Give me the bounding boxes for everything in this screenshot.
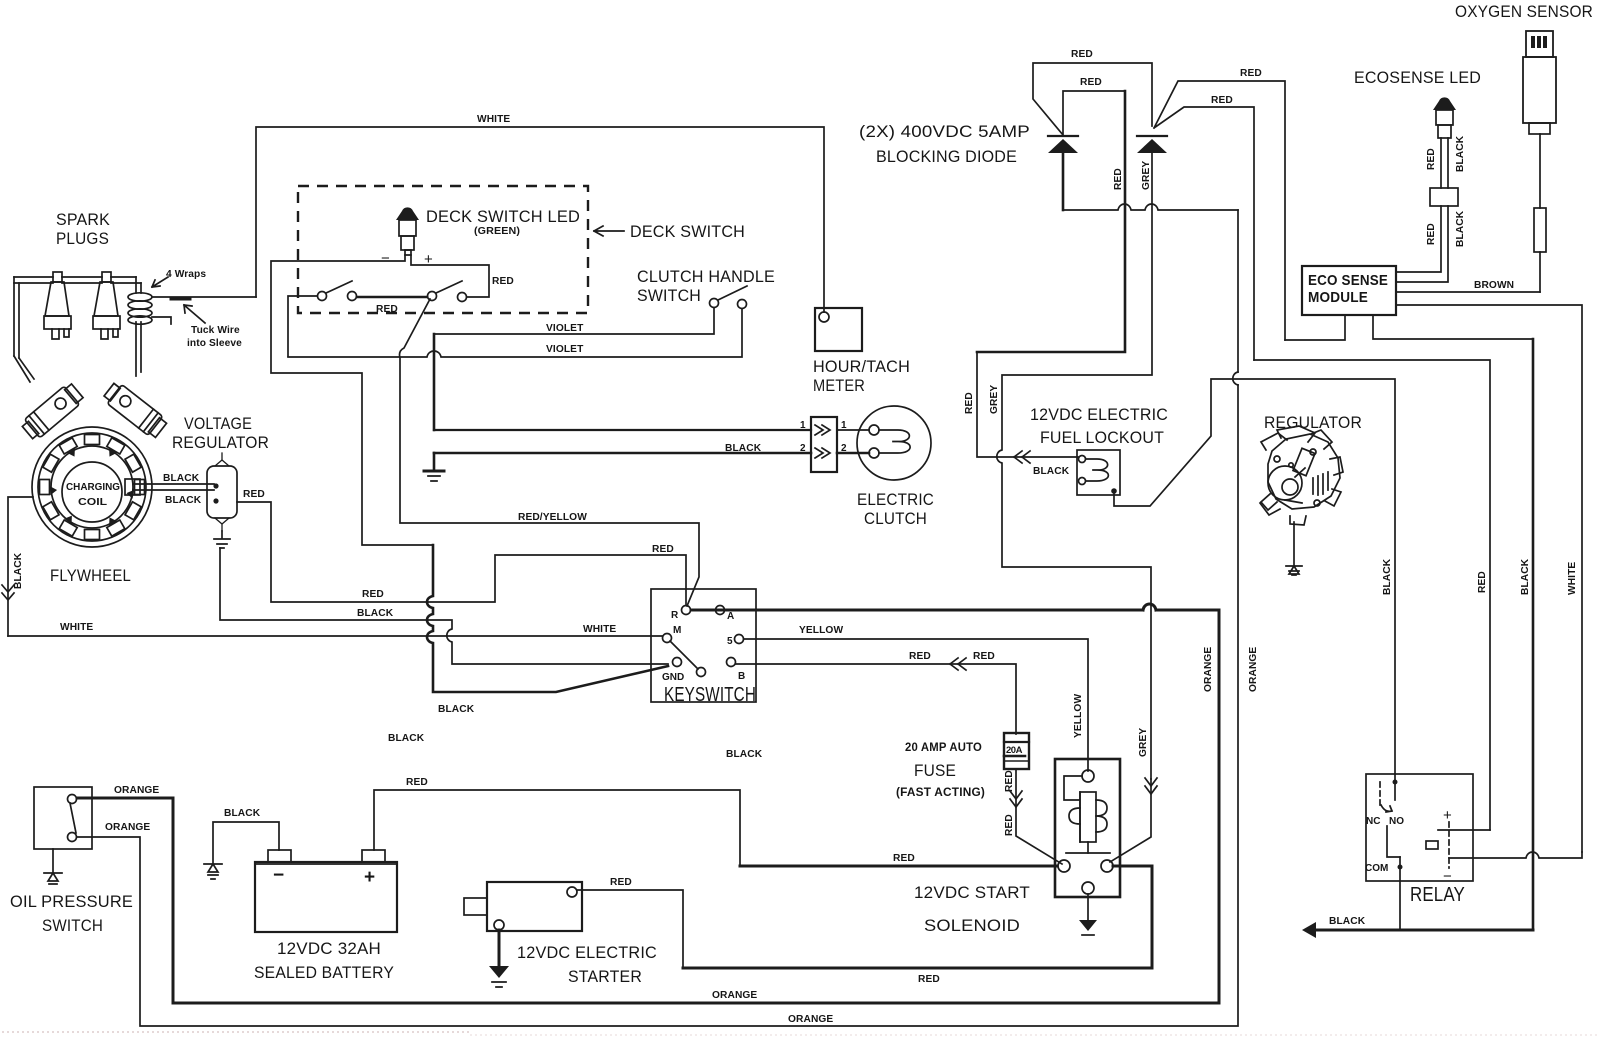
svg-text:NO: NO — [1389, 816, 1404, 827]
wire black to clutch pin2 (ground side) — [434, 452, 811, 455]
wire relay minus to white riser — [1449, 852, 1582, 858]
svg-text:RED: RED — [1071, 49, 1093, 60]
svg-text:BLACK: BLACK — [13, 552, 24, 589]
wire solenoid ground — [1087, 894, 1089, 920]
eco sense module — [1302, 266, 1396, 315]
svg-text:RED: RED — [973, 651, 995, 662]
svg-text:YELLOW: YELLOW — [799, 625, 843, 636]
svg-text:20 AMP AUTO: 20 AMP AUTO — [905, 742, 982, 754]
ignition coil left — [20, 382, 85, 442]
wire D1 bottom to orange drop with hops — [1063, 204, 1238, 210]
relay box — [1366, 774, 1473, 881]
relay coil element — [1426, 841, 1438, 849]
svg-text:RED: RED — [1004, 814, 1015, 836]
keyswitch terminal B — [727, 658, 736, 667]
deck switch contact K1 — [318, 292, 327, 301]
svg-text:+: + — [1443, 807, 1452, 824]
svg-text:YELLOW: YELLOW — [1073, 694, 1084, 738]
keyswitch terminal M — [663, 634, 672, 643]
svg-text:+: + — [364, 867, 375, 888]
svg-text:ECO SENSE: ECO SENSE — [1308, 272, 1388, 289]
deck switch bar (red) — [357, 296, 427, 299]
relay NO contact with feed — [1394, 774, 1396, 800]
ground below regulator VR1 — [214, 531, 230, 548]
wire regulator case ground to keyswitch GND (black) — [220, 548, 668, 664]
weave vertical (led negative / black) — [427, 545, 668, 692]
svg-text:(2X) 400VDC 5AMP: (2X) 400VDC 5AMP — [859, 122, 1030, 141]
svg-text:FUSE: FUSE — [914, 761, 956, 780]
svg-text:12VDC ELECTRIC: 12VDC ELECTRIC — [1030, 405, 1168, 424]
coil 4 wraps — [128, 293, 152, 324]
ecosense LED lamp — [1433, 97, 1456, 138]
wire deck switch common lever down — [400, 299, 700, 606]
svg-text:−: − — [1443, 868, 1452, 885]
wire spark plug harness (double lead) — [14, 277, 141, 382]
spark plug P1 — [44, 272, 71, 339]
svg-text:M: M — [673, 625, 681, 636]
svg-text:BLACK: BLACK — [726, 749, 763, 760]
svg-text:12VDC 32AH: 12VDC 32AH — [277, 939, 381, 958]
deck switch lever 1 — [326, 281, 352, 293]
wire violet 1 (clutch switch A to electric clutch) — [434, 308, 714, 334]
wire keyswitch 5 yellow — [744, 639, 1088, 771]
svg-text:BLACK: BLACK — [1455, 135, 1466, 172]
svg-text:RED: RED — [652, 544, 674, 555]
svg-text:REGULATOR: REGULATOR — [172, 433, 269, 452]
regulator alternator drawing — [1260, 426, 1343, 525]
svg-text:SWITCH: SWITCH — [637, 286, 701, 305]
svg-text:DECK SWITCH: DECK SWITCH — [630, 222, 745, 241]
blocking diode D1 — [1048, 135, 1078, 137]
ignition coil right — [102, 380, 169, 440]
flywheel trigger wedges — [50, 448, 134, 525]
wire module white out — [1396, 305, 1582, 852]
svg-text:RED: RED — [610, 877, 632, 888]
wire orange 2 (ops bottom to diode rail) — [77, 210, 1238, 1026]
svg-text:RED: RED — [1426, 148, 1437, 170]
svg-text:(GREEN): (GREEN) — [474, 226, 520, 237]
svg-text:ORANGE: ORANGE — [105, 822, 150, 833]
keyswitch center contact — [697, 668, 706, 677]
svg-text:MODULE: MODULE — [1308, 289, 1368, 306]
wire D2 slants to red feeds — [1154, 81, 1285, 360]
svg-text:COM: COM — [1365, 863, 1388, 874]
oxygen sensor inline connector — [1534, 208, 1546, 252]
solenoid left terminal — [1058, 860, 1070, 872]
wire starter ground — [498, 930, 501, 966]
svg-text:RED: RED — [492, 276, 514, 287]
svg-text:METER: METER — [813, 376, 865, 395]
svg-text:HOUR/TACH: HOUR/TACH — [813, 357, 910, 376]
solenoid right terminal — [1101, 860, 1113, 872]
deck switch contact K2 — [348, 292, 357, 301]
svg-text:5: 5 — [727, 636, 733, 647]
arrow chevrons on B wire — [950, 658, 966, 670]
arrow chevrons down on left lead — [2, 585, 14, 600]
wire regulator red output to weave — [237, 502, 686, 604]
svg-text:BLACK: BLACK — [1455, 210, 1466, 247]
svg-text:CHARGING: CHARGING — [66, 482, 120, 493]
svg-text:RED/YELLOW: RED/YELLOW — [518, 512, 587, 523]
clutch handle switch lever — [718, 286, 747, 300]
svg-text:R: R — [671, 610, 679, 621]
electric clutch connector — [811, 417, 837, 472]
solenoid coil — [1064, 776, 1082, 842]
wire battery positive red to solenoid — [374, 790, 740, 864]
wire lockout to relay black riser — [1114, 379, 1395, 774]
svg-text:12VDC ELECTRIC: 12VDC ELECTRIC — [517, 943, 657, 962]
svg-text:−: − — [273, 865, 284, 886]
svg-text:RED: RED — [893, 853, 915, 864]
deck switch LED (green) — [396, 207, 419, 255]
svg-text:RED: RED — [406, 777, 428, 788]
svg-text:CLUTCH HANDLE: CLUTCH HANDLE — [637, 267, 775, 286]
deck switch contact K4 — [458, 293, 467, 302]
wire red lockout feed — [977, 352, 1078, 457]
svg-text:SEALED BATTERY: SEALED BATTERY — [254, 963, 394, 982]
arrow chevrons on lockout feed — [1014, 451, 1030, 463]
clutch handle switch contact B — [738, 300, 747, 309]
wire keyswitch R run (thick to orange drop) — [691, 609, 1219, 612]
svg-text:RED: RED — [243, 489, 265, 500]
svg-text:BLACK: BLACK — [357, 608, 394, 619]
wire grey into solenoid right — [1110, 779, 1151, 862]
deck switch lever 2 — [436, 281, 462, 293]
svg-text:1: 1 — [800, 420, 806, 431]
svg-text:ORANGE: ORANGE — [1203, 647, 1214, 692]
svg-text:RED: RED — [1113, 168, 1124, 190]
svg-text:RELAY: RELAY — [1410, 884, 1465, 906]
wire contact K1 to violet run — [288, 296, 317, 356]
arrow chevrons down on fuse wire — [1010, 791, 1022, 807]
svg-text:BROWN: BROWN — [1474, 280, 1514, 291]
ground solenoid — [1079, 920, 1097, 931]
wire oxygen sensor lead — [1539, 134, 1541, 292]
svg-text:NC: NC — [1366, 816, 1380, 827]
relay switch arc — [1381, 805, 1392, 812]
battery 12VDC 32AH — [255, 862, 397, 932]
ground starter — [489, 966, 509, 978]
svg-text:ORANGE: ORANGE — [712, 990, 757, 1001]
svg-text:(FAST ACTING): (FAST ACTING) — [896, 787, 985, 799]
svg-text:FUEL LOCKOUT: FUEL LOCKOUT — [1040, 428, 1164, 447]
keyswitch terminal GND — [673, 658, 682, 667]
svg-text:WHITE: WHITE — [583, 624, 616, 635]
svg-text:RED: RED — [1004, 770, 1015, 792]
svg-text:COIL: COIL — [78, 497, 107, 508]
svg-text:RED: RED — [964, 392, 975, 414]
svg-text:BLOCKING DIODE: BLOCKING DIODE — [876, 147, 1017, 166]
wire white top run — [256, 127, 824, 312]
svg-text:RED: RED — [1080, 77, 1102, 88]
svg-text:CLUTCH: CLUTCH — [864, 509, 927, 528]
svg-text:OIL PRESSURE: OIL PRESSURE — [10, 892, 133, 911]
svg-text:WHITE: WHITE — [477, 114, 510, 125]
wire keyswitch B red to fuse — [736, 664, 1016, 734]
wire violet 2 (clutch switch B to deck switch) — [288, 309, 742, 357]
start solenoid box — [1055, 759, 1120, 897]
svg-text:B: B — [738, 671, 745, 682]
svg-text:BLACK: BLACK — [388, 733, 425, 744]
wire LED positive lead — [411, 255, 489, 297]
fuse F1 — [1004, 733, 1029, 769]
wire module pin black down — [1373, 315, 1533, 339]
wire coil to white vertical (tuck sleeve) — [152, 296, 256, 298]
spark plug P2 — [93, 272, 120, 339]
wire fuse to solenoid left — [1016, 770, 1062, 864]
flywheel charging coil core — [62, 462, 122, 522]
solenoid bottom terminal — [1082, 882, 1094, 894]
blocking diode D2 — [1137, 135, 1167, 137]
svg-text:ORANGE: ORANGE — [1248, 647, 1259, 692]
svg-text:RED: RED — [1240, 68, 1262, 79]
keyswitch box — [651, 589, 756, 702]
svg-text:ELECTRIC: ELECTRIC — [857, 490, 934, 509]
keyswitch terminal 5 — [735, 635, 744, 644]
wire ecosense LED leads — [1441, 138, 1448, 188]
wire relay NO to COM node — [1387, 826, 1400, 857]
scanner artifact dotted baseline — [2, 1031, 470, 1033]
svg-text:BLACK: BLACK — [725, 443, 762, 454]
svg-text:VOLTAGE: VOLTAGE — [184, 414, 252, 433]
svg-text:SOLENOID: SOLENOID — [924, 916, 1020, 935]
flywheel output window — [125, 479, 140, 495]
wire module pin to diode feed — [1285, 315, 1345, 340]
svg-text:GREY: GREY — [1138, 728, 1149, 757]
svg-text:BLACK: BLACK — [165, 495, 202, 506]
wire starter red to solenoid drop — [577, 890, 683, 968]
svg-text:GND: GND — [662, 672, 684, 683]
starter motor box — [487, 882, 582, 931]
svg-text:RED: RED — [1426, 223, 1437, 245]
wire regulator ground — [1293, 522, 1295, 566]
deck switch contact K3 — [428, 292, 437, 301]
ground below regulator drawing — [1286, 566, 1302, 575]
wire relay plus to red riser — [1438, 829, 1490, 831]
svg-text:WHITE: WHITE — [1567, 562, 1578, 595]
flywheel magnet ring — [40, 435, 145, 540]
svg-text:RED: RED — [909, 651, 931, 662]
wire white to keyswitch M — [8, 635, 662, 637]
solenoid top terminal — [1082, 770, 1094, 782]
svg-text:RED: RED — [918, 974, 940, 985]
svg-text:Tuck Wire: Tuck Wire — [191, 325, 240, 336]
wire red riser to relay — [1254, 360, 1490, 830]
wire relay COM down to black run — [1399, 857, 1401, 930]
svg-text:ORANGE: ORANGE — [788, 1014, 833, 1025]
flywheel outer rim — [32, 427, 152, 547]
svg-text:BLACK: BLACK — [1520, 558, 1531, 595]
arrow chevrons down on grey — [1145, 778, 1157, 794]
svg-text:DECK SWITCH LED: DECK SWITCH LED — [426, 207, 580, 226]
ground below oil pressure switch — [44, 849, 62, 884]
svg-text:ORANGE: ORANGE — [114, 785, 159, 796]
svg-text:FLYWHEEL: FLYWHEEL — [50, 566, 131, 585]
fuel lockout solenoid — [1077, 450, 1120, 495]
hour/tach meter — [815, 308, 862, 351]
voltage regulator VR1 — [207, 453, 237, 531]
svg-text:KEYSWITCH: KEYSWITCH — [664, 684, 756, 706]
svg-text:BLACK: BLACK — [1033, 466, 1070, 477]
ecosense LED connector — [1430, 188, 1458, 206]
svg-text:A: A — [727, 611, 734, 622]
svg-text:BLACK: BLACK — [1329, 916, 1366, 927]
keyswitch terminal R — [682, 606, 691, 615]
svg-text:RED: RED — [1211, 95, 1233, 106]
oxygen sensor body — [1523, 31, 1556, 134]
relay NC contact — [1379, 782, 1381, 806]
svg-text:SWITCH: SWITCH — [42, 916, 103, 935]
ground on black clutch feed — [433, 453, 436, 470]
svg-text:BLACK: BLACK — [224, 808, 261, 819]
svg-text:VIOLET: VIOLET — [546, 344, 584, 355]
svg-text:4 Wraps: 4 Wraps — [166, 269, 206, 280]
electric clutch body — [857, 406, 931, 480]
svg-text:−: − — [381, 250, 390, 267]
svg-text:BLACK: BLACK — [438, 704, 475, 715]
svg-text:STARTER: STARTER — [568, 967, 642, 986]
svg-text:BLACK: BLACK — [1382, 558, 1393, 595]
wire D2 cathode grey down — [997, 153, 1152, 779]
keyswitch terminal A — [716, 606, 725, 615]
wire charging coil to regulator (double black) — [134, 484, 214, 490]
svg-text:WHITE: WHITE — [60, 622, 93, 633]
clutch handle switch contact A — [710, 299, 719, 308]
wire D1 anode loop (red top) — [1033, 63, 1152, 135]
svg-text:GREY: GREY — [989, 385, 1000, 414]
wire orange 1 (ops top to keyswitch R rail) — [77, 610, 1219, 1003]
svg-text:GREY: GREY — [1141, 161, 1152, 190]
wire LED connector to module — [1396, 206, 1448, 282]
wire LED negative lead — [271, 255, 433, 545]
svg-text:RED: RED — [1477, 571, 1488, 593]
svg-text:RED: RED — [376, 304, 398, 315]
deck switch dashed enclosure — [298, 186, 588, 313]
svg-text:SPARK: SPARK — [56, 210, 110, 229]
svg-text:VIOLET: VIOLET — [546, 323, 584, 334]
svg-text:12VDC START: 12VDC START — [914, 883, 1030, 902]
wire flywheel to left edge black lead — [8, 497, 33, 636]
keyswitch lever — [670, 641, 698, 669]
svg-text:BLACK: BLACK — [163, 473, 200, 484]
wire module brown to oxygen sensor — [1396, 291, 1540, 293]
wire black chassis run with arrow — [1307, 929, 1533, 932]
svg-text:OXYGEN SENSOR: OXYGEN SENSOR — [1455, 2, 1593, 21]
wire solenoid right to starter run — [1113, 866, 1152, 968]
oil pressure switch box — [34, 787, 92, 849]
wire D1 cathode down (red thick) — [1062, 153, 1065, 210]
svg-text:into Sleeve: into Sleeve — [187, 338, 242, 349]
ground battery negative — [204, 864, 222, 879]
svg-text:PLUGS: PLUGS — [56, 229, 109, 248]
svg-text:20A: 20A — [1006, 745, 1023, 756]
svg-text:RED: RED — [362, 589, 384, 600]
svg-text:ECOSENSE LED: ECOSENSE LED — [1354, 68, 1481, 87]
wire battery negative to ground — [213, 822, 279, 864]
